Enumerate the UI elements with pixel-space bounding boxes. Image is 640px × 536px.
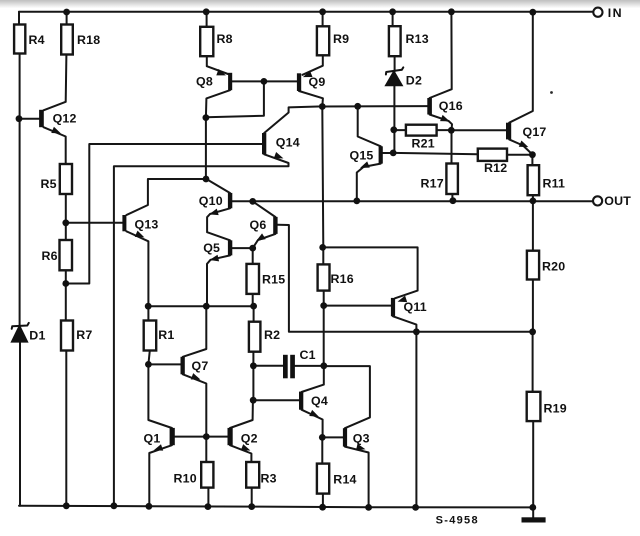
svg-text:R21: R21	[412, 137, 435, 151]
svg-text:Q4: Q4	[311, 394, 328, 408]
svg-text:R11: R11	[543, 176, 566, 190]
svg-text:Q17: Q17	[523, 125, 547, 139]
svg-text:R5: R5	[41, 177, 57, 191]
svg-text:D2: D2	[406, 74, 422, 88]
svg-text:Q15: Q15	[350, 149, 374, 163]
svg-text:Q9: Q9	[309, 75, 326, 89]
svg-text:OUT: OUT	[604, 194, 631, 208]
svg-text:R17: R17	[421, 176, 444, 190]
svg-text:Q7: Q7	[192, 359, 209, 373]
svg-text:Q6: Q6	[250, 218, 267, 232]
svg-text:Q12: Q12	[53, 111, 77, 125]
svg-text:R12: R12	[484, 161, 507, 175]
svg-text:R4: R4	[29, 33, 45, 47]
svg-text:Q14: Q14	[276, 135, 300, 149]
svg-text:R2: R2	[264, 328, 280, 342]
svg-text:S-4958: S-4958	[436, 515, 479, 527]
svg-text:D1: D1	[29, 328, 45, 342]
svg-text:R3: R3	[261, 472, 277, 486]
svg-text:R15: R15	[262, 273, 285, 287]
svg-text:Q8: Q8	[196, 75, 213, 89]
svg-text:R7: R7	[76, 328, 92, 342]
svg-text:Q1: Q1	[144, 432, 161, 446]
svg-text:C1: C1	[300, 348, 316, 362]
svg-text:Q3: Q3	[353, 432, 370, 446]
svg-text:R6: R6	[42, 249, 58, 263]
svg-text:R8: R8	[217, 32, 233, 46]
svg-text:R14: R14	[333, 473, 356, 487]
svg-text:Q5: Q5	[203, 241, 220, 255]
svg-text:R19: R19	[544, 402, 567, 416]
svg-text:Q11: Q11	[404, 300, 427, 314]
svg-text:Q16: Q16	[439, 99, 463, 113]
svg-text:R1: R1	[158, 328, 174, 342]
svg-text:R13: R13	[406, 32, 429, 46]
svg-text:R20: R20	[542, 260, 565, 274]
svg-text:R9: R9	[333, 32, 349, 46]
svg-text:Q10: Q10	[199, 194, 223, 208]
svg-text:R10: R10	[174, 472, 197, 486]
svg-text:R18: R18	[77, 33, 100, 47]
svg-text:Q13: Q13	[135, 218, 159, 232]
svg-text:Q2: Q2	[241, 432, 258, 446]
svg-text:IN: IN	[608, 6, 623, 20]
svg-text:R16: R16	[331, 272, 354, 286]
